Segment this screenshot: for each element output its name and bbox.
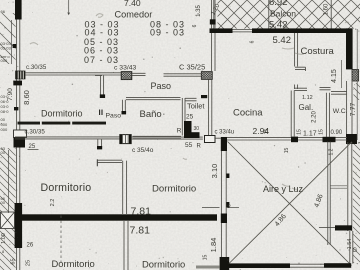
svg-text:C 35/25: C 35/25: [179, 63, 205, 72]
node: tick bottom of paso wall: [100, 94, 105, 98]
svg-text:15: 15: [203, 255, 209, 261]
hatch balcony top right: [218, 0, 360, 29]
wall: comedor bottom pair 1: [25, 73, 121, 75]
svg-text:Dormitorio: Dormitorio: [142, 258, 185, 269]
wall: toilet right / cocina left vertical: [209, 80, 212, 138]
column: left frame at row2 wall: [14, 130, 27, 138]
svg-text:000: 000: [1, 127, 8, 132]
svg-text:3.10: 3.10: [210, 164, 219, 179]
wall: bano left vertical: [122, 100, 125, 113]
svg-text:c.30/35: c.30/35: [25, 128, 46, 135]
door: balcony opening: [233, 29, 253, 32]
wall: lightwell right double lower: [350, 231, 353, 264]
svg-text:8.60: 8.60: [22, 90, 31, 105]
svg-text:03·03: 03·03: [1, 46, 12, 51]
svg-text:15: 15: [319, 129, 325, 135]
svg-text:Toilet: Toilet: [187, 101, 205, 110]
svg-text:Dormitorio: Dormitorio: [41, 182, 92, 194]
svg-text:Gal.: Gal.: [299, 103, 314, 112]
wire: dim arrow lightwell right: [319, 227, 335, 229]
wire: right edge line: [356, 29, 358, 140]
svg-text:1.84: 1.84: [209, 238, 218, 253]
svg-text:7.81: 7.81: [131, 205, 152, 217]
wall: lightwell inner horizontal: [331, 186, 348, 188]
svg-text:1.17: 1.17: [303, 131, 317, 138]
svg-text:Dormitorio: Dormitorio: [52, 258, 95, 269]
svg-text:7.77: 7.77: [350, 103, 357, 117]
wall: right corner black at WC bottom: [346, 134, 357, 144]
svg-text:15: 15: [264, 129, 270, 135]
svg-text:6.92: 6.92: [269, 0, 288, 8]
wall: right outer double: [347, 81, 352, 134]
svg-text:65: 65: [11, 258, 17, 264]
wall: left black through party junction: [15, 203, 23, 248]
wall: dormitorio1 bottom segment a: [18, 122, 41, 125]
wall: lightwell left black bottom: [220, 257, 230, 270]
wall: paso left vertical: [101, 76, 104, 95]
wall: costura bottom pair a: [294, 88, 307, 90]
svg-text:Comedor: Comedor: [115, 10, 153, 20]
svg-text:Baño: Baño: [140, 109, 162, 120]
label: tiny margin codes: [1, 9, 12, 254]
wall: row2 top pair right: [131, 137, 203, 139]
svg-text:1.35: 1.35: [196, 5, 202, 17]
svg-text:000: 000: [1, 58, 8, 63]
wire: dim line x268.8: [268, 0, 270, 29]
svg-text:c 33/43: c 33/43: [114, 64, 137, 71]
svg-text:6: 6: [250, 40, 256, 43]
wall: lightwell bottom black left: [229, 263, 290, 268]
wall: lightwell top pair b: [298, 137, 326, 140]
wall: lightwell left double lower: [221, 223, 226, 257]
svg-text:5.42: 5.42: [273, 35, 292, 46]
wall: lightwell left black mid: [221, 214, 227, 224]
wall: dormitorio1 bottom segment c: [72, 122, 106, 125]
wall: cocina left vertical pair upper: [212, 33, 215, 71]
wall: costura bottom pair b: [320, 87, 331, 89]
wire: dashed line below party wall: [60, 216, 62, 263]
wall: lightwell right double: [348, 142, 352, 231]
hatch left-bottom strip: [0, 148, 16, 270]
node: black chunk wc wall base: [323, 137, 336, 142]
svg-text:08·0: 08·0: [1, 109, 10, 114]
svg-text:7.81: 7.81: [130, 224, 151, 236]
wire: dim line 4.15: [341, 60, 343, 88]
node: tick on lightwell wall b: [226, 202, 229, 208]
svg-text:1.12: 1.12: [302, 95, 313, 101]
hatch patch right upper: [354, 83, 360, 100]
svg-text:2.2: 2.2: [50, 199, 56, 207]
wall: lightwell left double upper: [221, 151, 226, 214]
svg-text:15: 15: [284, 148, 290, 154]
wall: right outer black: [346, 28, 353, 69]
hatch top-left strip: [0, 13, 16, 64]
wire: vline top-left strip: [11, 20, 13, 64]
wall: balcony front right segment: [252, 28, 353, 33]
svg-text:Paso: Paso: [151, 81, 172, 91]
wall: left black block: [13, 81, 22, 86]
svg-text:66: 66: [1, 9, 6, 14]
svg-text:06 - 03: 06 - 03: [84, 46, 119, 56]
svg-text:Dormitorio: Dormitorio: [41, 108, 83, 118]
node: black junction top of comedor wall: [210, 19, 216, 24]
svg-text:2.20: 2.20: [312, 111, 318, 123]
wall: black L at toilet bottom vertical: [184, 121, 192, 138]
svg-text:15: 15: [297, 129, 303, 135]
node: tick on lightwell wall a: [226, 174, 229, 179]
svg-text:04 - 03: 04 - 03: [85, 27, 120, 37]
svg-text:R: R: [177, 128, 182, 135]
svg-text:Balcon: Balcon: [270, 9, 296, 19]
svg-text:4.15: 4.15: [331, 69, 338, 83]
wall: left outer double line: [17, 20, 20, 270]
svg-text:00: 00: [1, 200, 6, 205]
svg-text:26: 26: [27, 243, 34, 249]
column: framed block near lightwell: [205, 136, 216, 143]
wall: row2 stub below top wall: [98, 139, 102, 146]
node: black chunk gal wall base: [291, 137, 298, 143]
wall: black L foot: [192, 132, 200, 138]
svg-text:Costura: Costura: [301, 46, 335, 57]
svg-text:Dormitorio: Dormitorio: [152, 183, 196, 194]
door: row2 bracket vertical: [96, 159, 98, 166]
svg-text:25: 25: [26, 260, 32, 266]
svg-text:c 33/4u: c 33/4u: [215, 129, 235, 135]
wall: gal-wc divider vertical: [326, 93, 329, 137]
stray smudge marks: [30, 14, 349, 190]
wall: gray stub bottom left of lightwell: [196, 266, 220, 269]
wall: bano bottom pair: [133, 136, 182, 138]
svg-text:7.40: 7.40: [124, 0, 141, 8]
wall: balcony front left segment: [210, 28, 233, 33]
wire: lightwell diagonal 2: [229, 142, 352, 264]
svg-text:1.00: 1.00: [1, 233, 7, 244]
wall: lightwell bottom black right: [324, 263, 351, 268]
svg-text:W.C.: W.C.: [333, 108, 348, 115]
wall: lightwell top pair a: [227, 137, 291, 140]
wall: row3 divider vertical: [124, 221, 128, 270]
svg-text:c.30/35: c.30/35: [26, 64, 47, 71]
svg-text:00: 00: [1, 150, 6, 155]
svg-text:Paso: Paso: [106, 113, 122, 120]
column block left striped: [15, 71, 25, 80]
wire: dim line x331.2: [330, 0, 332, 29]
wall: comedor bottom pair 2: [132, 73, 146, 75]
door ticks at dormitorio1 door: [100, 110, 102, 116]
svg-text:09 - 03: 09 - 03: [150, 28, 185, 38]
wall: lightwell left black top: [221, 137, 227, 151]
wire: dim line x213.8: [213, 0, 215, 29]
wall: party wall: [18, 214, 218, 220]
wall: toilet left vertical: [182, 98, 185, 136]
wire: lightwell diagonal 1: [228, 142, 352, 266]
wall: top-left black: [15, 0, 22, 20]
svg-text:G: G: [353, 248, 358, 254]
column: left black at row2 wall: [14, 138, 26, 148]
hatched X square left: [1, 212, 15, 229]
svg-text:1.60: 1.60: [324, 3, 330, 15]
wall: dormitorio1 bottom segment b: [42, 122, 71, 125]
node: toilet top stub black: [201, 95, 207, 98]
wall: toilet top pair: [185, 98, 197, 101]
wire: T bar at paso wall top: [95, 75, 102, 77]
node: tick at stub bottom: [97, 146, 102, 149]
wall: row2 divider vertical: [123, 161, 127, 214]
column: row2 framed block: [120, 135, 131, 144]
wall: wc top pair: [331, 92, 347, 95]
wall: comedor bottom pair 3: [164, 74, 202, 76]
wire: dim leader a: [202, 207, 220, 209]
svg-text:Aire y Luz: Aire y Luz: [263, 184, 304, 194]
svg-text:R: R: [197, 143, 202, 149]
wire: dim line 7.40: [68, 0, 70, 15]
svg-text:25: 25: [186, 114, 194, 121]
svg-text:5.42: 5.42: [269, 19, 288, 30]
svg-text:55: 55: [185, 142, 193, 149]
wall: gal left vertical: [291, 91, 294, 138]
wire: vline in left strip: [8, 150, 10, 213]
node: black rect at dim arrow: [335, 225, 352, 230]
svg-text:30: 30: [194, 126, 200, 132]
svg-text:1.2: 1.2: [329, 148, 335, 155]
wall: comedor right vertical pair: [212, 0, 215, 28]
node: tick bano left: [122, 111, 127, 114]
wall: left tick 1: [13, 44, 17, 48]
svg-text:6: 6: [192, 24, 198, 27]
svg-text:c 35/4o: c 35/4o: [132, 147, 154, 154]
wall: left tick 2: [14, 107, 18, 110]
wire: dim leader b: [228, 207, 240, 209]
column block hatched C35/25: [201, 72, 212, 80]
column block hatched C33/43: [121, 72, 132, 80]
wire: short link to lightwell corner: [215, 137, 221, 139]
wall: row2 door head pair: [97, 160, 122, 162]
wall: lightwell top pair c: [336, 137, 348, 140]
wall: costura left vertical: [295, 33, 298, 67]
svg-text:0.90: 0.90: [331, 130, 343, 136]
svg-text:Cocina: Cocina: [233, 108, 263, 119]
wall: row2 top pair left: [15, 137, 120, 139]
hatch right strip: [353, 142, 360, 263]
wall: lightwell bottom double mid: [290, 264, 324, 267]
column bump on right property line: [352, 70, 359, 82]
wall: lightwell inner vertical: [328, 142, 330, 246]
wall: bano top pair: [126, 97, 181, 99]
